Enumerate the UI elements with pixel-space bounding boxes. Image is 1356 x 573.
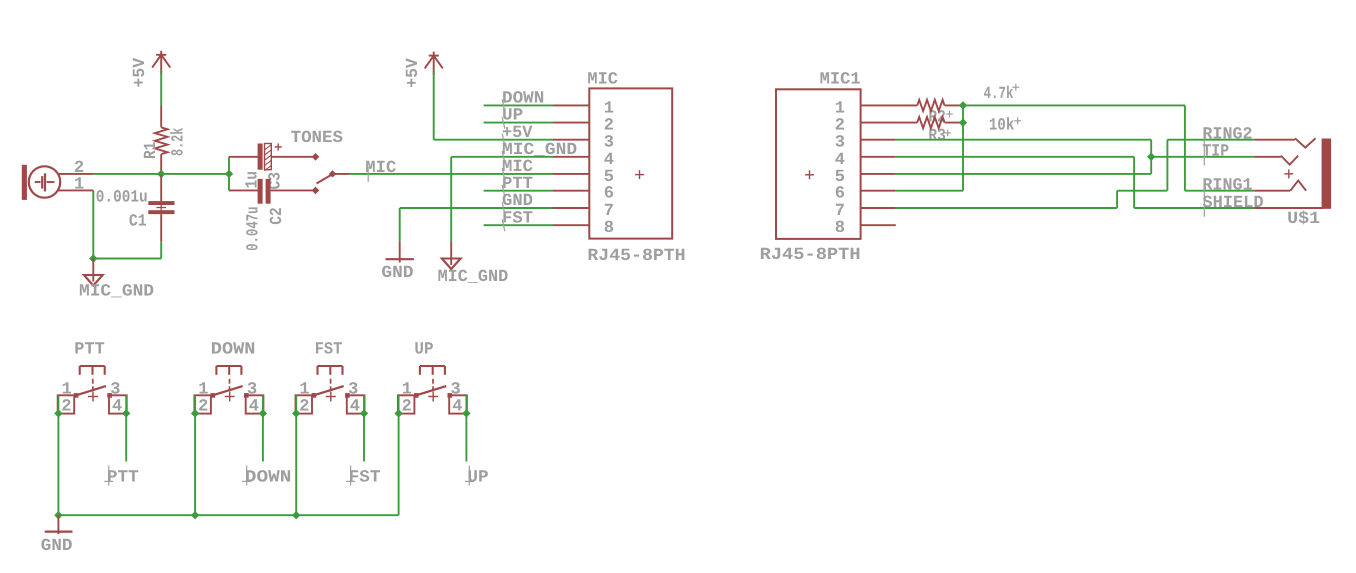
junction PTT pin4 [122,409,130,417]
junction caps branch [225,170,233,178]
wire mic pin1 down [92,190,94,258]
switch S_UP [420,365,445,367]
mic pin 1 [58,189,93,191]
jack U$1 SHIELD contact [1254,207,1323,209]
svg-text:FST: FST [349,468,381,487]
capacitor C2 [229,189,258,191]
junction FST pin4 [360,409,368,417]
ground GND bottom [57,515,59,534]
connector MIC pin stubs [553,104,589,106]
power +5V left [160,51,162,75]
capacitor C1 [160,175,162,201]
wire +5V to pin3 [433,71,435,140]
junction DOWN pin4 [259,409,267,417]
wire net PTT [484,190,553,192]
junction UP pin4 [462,409,470,417]
wire pin4 row to SHIELD [896,156,1134,158]
wire net to RING1: vertical [1184,105,1186,190]
switch S_FST [318,365,343,367]
svg-text:0.047u: 0.047u [244,206,263,251]
svg-text:8.2k: 8.2k [170,128,189,156]
wire FST pin4 stub [363,395,365,461]
connector MIC1 body RJ45-8PTH [776,89,861,239]
svg-text:SHIELD: SHIELD [1202,194,1263,213]
wire net MIC switch to connector [350,173,553,175]
svg-text:0.001u: 0.001u [96,189,148,208]
wire C1 bottom to junction [93,258,161,260]
svg-text:DOWN: DOWN [245,468,292,487]
wire net MIC from mic pin2 to R1 [93,173,161,175]
svg-text:2: 2 [402,397,412,416]
wire UP pin4 stub [465,395,467,461]
junction UP pin2 [394,409,402,417]
svg-text:C2: C2 [268,207,287,225]
wire net GND [400,207,553,209]
svg-text:4.7k: 4.7k [984,85,1014,104]
svg-text:U$1: U$1 [1287,210,1320,229]
switch S_PTT [80,365,105,367]
svg-text:MIC_GND: MIC_GND [438,268,509,287]
wire TIP branch vertical [1150,140,1152,174]
ground MIC_GND (connector) [450,242,452,265]
svg-text:PTT: PTT [107,468,139,487]
jack U$1 RING1 contact [1254,190,1290,192]
svg-text:8: 8 [604,219,614,238]
ground GND (connector) [399,242,401,263]
junction rail FST [292,511,300,519]
wire pin7 row to RING2 [896,207,1117,209]
mic pin 2 [58,173,93,175]
svg-text:TONES: TONES [291,129,343,148]
power +5V (connector MIC) [433,52,435,76]
jack U$1 TIP contact [1254,156,1281,158]
svg-text:6: 6 [835,185,845,204]
svg-text:1: 1 [74,176,84,195]
wire ground rail [58,514,398,516]
svg-text:4: 4 [350,397,360,416]
wire PTT pin4 stub [125,395,127,461]
wire TIP horizontal [1151,156,1254,158]
svg-text:GND: GND [41,537,73,556]
connector MIC body RJ45-8PTH [589,88,672,238]
wire PTT pin2 to ground rail [57,395,59,515]
junction PTT pin2 [54,409,62,417]
resistor R1 [160,105,162,127]
jack U$1 body bar [1322,139,1332,209]
svg-text:MIC: MIC [587,70,618,89]
svg-text:4: 4 [112,397,122,416]
wire pin5 row [896,173,1151,175]
wire DOWN pin4 stub [262,395,264,461]
junction TIP node [1147,153,1155,161]
junction DOWN pin2 [191,409,199,417]
svg-text:PTT: PTT [74,341,105,360]
svg-text:R1: R1 [142,142,161,159]
svg-text:2: 2 [198,397,208,416]
svg-text:FST: FST [502,209,533,228]
wire net to RING1: horizontal pin1 row [963,104,1185,106]
junction R2 output [959,101,967,109]
svg-text:2: 2 [299,397,309,416]
wire MIC net R1 to caps [161,173,229,175]
wire pin6 to vertical [896,190,963,192]
wire DOWN pin2 to ground rail [194,395,196,515]
svg-text:+5V: +5V [404,57,423,87]
wire +5V to R1 [160,70,162,105]
resistor R2 [917,100,944,111]
wire net FST [484,224,553,226]
svg-text:C1: C1 [129,213,147,232]
svg-text:RING1: RING1 [1202,177,1252,196]
svg-text:PTT: PTT [502,175,533,194]
junction rail DOWN [191,511,199,519]
junction at MIC_GND node [89,254,97,262]
svg-text:7: 7 [604,202,614,221]
svg-text:UP: UP [467,468,488,487]
microphone MK1 [22,165,27,200]
junction R3 output [959,118,967,126]
svg-text:7: 7 [835,202,845,221]
svg-text:MIC: MIC [365,159,396,178]
svg-text:FST: FST [315,341,343,360]
junction rail PTT [54,511,62,519]
svg-text:TIP: TIP [1202,143,1229,162]
wire net DOWN [484,104,553,106]
connector MIC1 pin stubs [861,104,918,106]
svg-text:2: 2 [61,397,71,416]
svg-text:RJ45-8PTH: RJ45-8PTH [760,246,861,265]
wire UP pin2 to ground rail [398,395,400,515]
svg-text:MIC_GND: MIC_GND [79,282,154,301]
ground MIC_GND left [92,259,94,282]
svg-text:DOWN: DOWN [502,90,544,109]
svg-text:+5V: +5V [131,57,150,87]
resistor R3 [917,117,944,128]
svg-text:MIC1: MIC1 [820,70,861,89]
jack U$1 RING2 contact [1254,139,1295,141]
wire R2/R3/pin6 vertical [962,105,964,190]
wire pin3 row to TIP branch [896,139,1151,141]
svg-text:6: 6 [604,185,614,204]
svg-text:GND: GND [381,264,413,283]
svg-text:GND: GND [502,192,533,211]
svg-text:RJ45-8PTH: RJ45-8PTH [587,247,685,266]
wire net to RING1: horizontal [1185,190,1254,192]
capacitor C3 polarized [229,156,258,158]
junction FST pin2 [292,409,300,417]
svg-text:1: 1 [604,99,614,118]
svg-text:DOWN: DOWN [211,341,256,360]
svg-text:1: 1 [835,99,845,118]
svg-text:8: 8 [835,219,845,238]
svg-text:UP: UP [414,341,433,360]
svg-text:4: 4 [452,397,462,416]
svg-text:4: 4 [249,397,259,416]
switch S_DOWN [216,365,241,367]
wire net UP [484,122,553,124]
wire cap branch vertical [228,157,230,191]
wire net MIC_GND [451,156,553,158]
svg-text:10k: 10k [989,117,1014,136]
junction R1 / C1 / MIC net [157,170,165,178]
wire FST pin2 to ground rail [295,395,297,515]
switch TONES [312,153,320,161]
